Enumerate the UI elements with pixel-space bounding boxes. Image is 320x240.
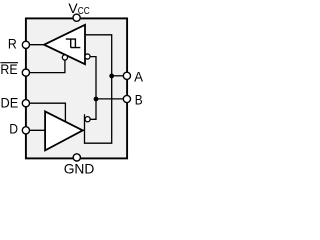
svg-text:R: R [8,36,17,52]
wire R output [28,44,45,46]
wire driver apex stub [81,129,85,131]
svg-text:RE: RE [0,61,17,77]
wire D input [28,129,45,131]
wire A pin stub [112,75,127,77]
op-amp receiver triangle [44,25,85,64]
node B junction dot [94,97,99,102]
receiver enable bubble (RE) [62,55,67,60]
pin R [22,41,29,48]
wire DE: horizontal then down to driver slant [28,103,65,122]
pin DE [22,100,29,107]
pin D [22,127,29,134]
hysteresis symbol [66,39,81,48]
svg-text:DE: DE [1,94,19,110]
svg-text:CC: CC [78,5,90,17]
pin A [123,72,130,79]
pin GND [73,154,80,161]
node A junction dot [109,74,114,79]
svg-text:D: D [9,121,18,137]
svg-text:GND: GND [64,161,95,176]
svg-text:A: A [134,69,144,85]
driver inverting output bubble (B) [85,117,90,122]
wire RE: horizontal then up to enable bubble [28,60,65,73]
pin B [123,95,130,102]
wire A net: receiver input A, down right side, down to driver output [85,35,112,143]
svg-text:B: B [135,91,143,107]
receiver inverting input bubble (B) [85,54,90,59]
wire B pin stub [96,98,127,100]
pin Vcc [73,14,80,21]
wire B net: receiver B bubble right, down, to driver inverting bubble [90,57,96,120]
IC body box [26,18,127,158]
pin RE [22,69,29,76]
op-amp driver triangle [45,111,83,150]
